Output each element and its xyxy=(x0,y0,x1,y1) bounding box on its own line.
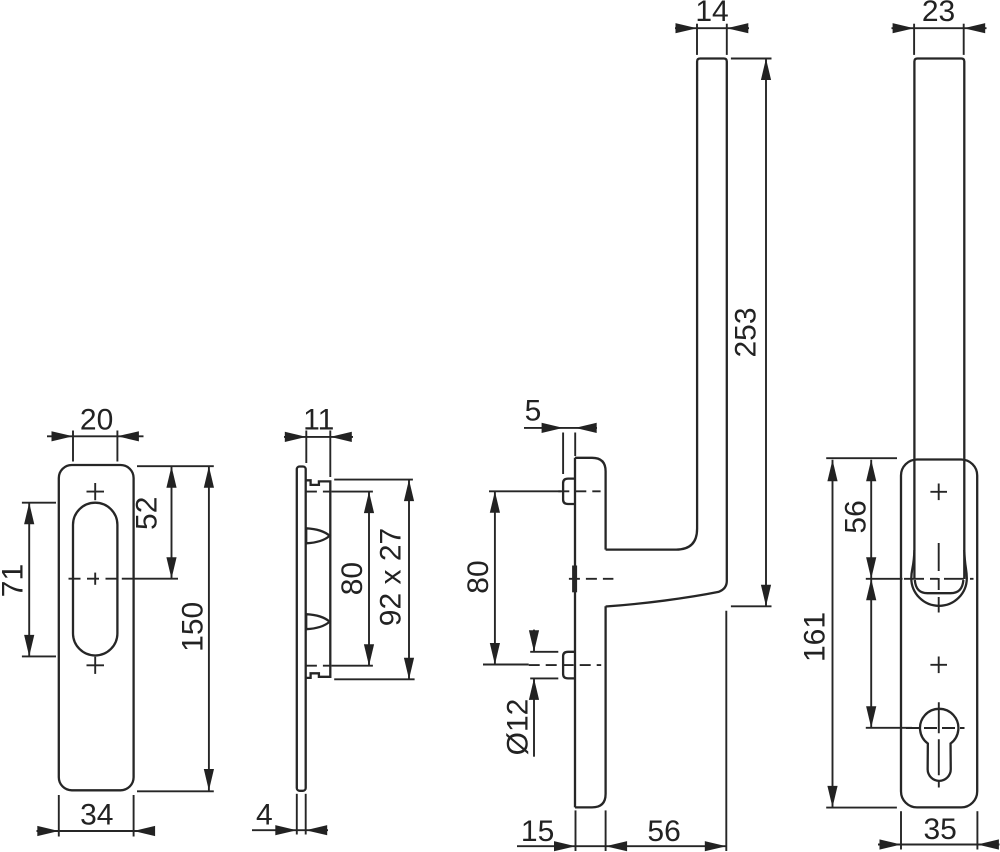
dimension 20 (view 1 slot width) xyxy=(47,431,144,462)
extension line plate bottom (view 4) xyxy=(826,807,897,809)
dimension 4 (view 2 plate thickness) xyxy=(252,794,328,836)
svg-text:15: 15 xyxy=(521,815,554,848)
extension line cylinder centre (view 4) xyxy=(866,727,912,729)
svg-text:4: 4 xyxy=(256,799,273,832)
top screw cross (view 4) xyxy=(930,484,947,501)
dimension 23 (view 4 grip width) xyxy=(892,23,987,55)
backplate outline (view 1) xyxy=(59,465,134,790)
svg-text:56: 56 xyxy=(840,500,873,533)
svg-text:35: 35 xyxy=(924,813,957,846)
svg-text:80: 80 xyxy=(336,562,369,595)
dimension O12 (view 3 lug diameter) xyxy=(529,630,558,757)
bottom screw cross (view 4) xyxy=(930,657,947,674)
cylinder horizontal centre line (view 4) xyxy=(906,727,965,729)
svg-text:161: 161 xyxy=(799,612,832,662)
handle grip outline (view 3) xyxy=(606,59,727,607)
dimension 71 (view 1 slot length) xyxy=(22,503,56,657)
dimension 14 (view 3 grip width) xyxy=(675,23,749,55)
dimension 35 (view 4 plate width) xyxy=(878,811,1000,849)
bottom clip lug (view 2) xyxy=(306,614,329,629)
grip bend outer outline (view 4) xyxy=(911,550,967,606)
spindle vertical centre line dashed (view 4) xyxy=(938,543,940,613)
top clip lug (view 2) xyxy=(306,528,329,543)
grip bend inner edge (view 4) xyxy=(915,580,964,593)
oval slot (view 1) xyxy=(73,503,117,656)
cylinder vertical centre line (view 4) xyxy=(938,702,940,787)
svg-text:52: 52 xyxy=(131,497,164,530)
svg-text:80: 80 xyxy=(462,560,495,593)
dimension 56 (view 4 plate top to spindle) xyxy=(866,460,876,579)
svg-text:5: 5 xyxy=(525,395,542,428)
upper centre line dashed (view 2) xyxy=(306,491,332,493)
svg-text:71: 71 xyxy=(0,564,30,597)
dimension 80 (view 2 hole distance) xyxy=(332,492,375,666)
dimension 15 and 56 (view 3 bottom) xyxy=(517,611,726,852)
svg-text:Ø12: Ø12 xyxy=(502,699,535,756)
svg-text:20: 20 xyxy=(80,404,113,437)
spindle centre line dashed (view 3) xyxy=(569,578,614,580)
lower centre line dashed (view 2) xyxy=(306,665,332,667)
dimension 92 x 27 (view 2 profile length) xyxy=(334,480,414,680)
svg-text:34: 34 xyxy=(80,799,113,832)
plate front outline (view 4) xyxy=(901,460,977,808)
grip bar front outline (view 4) xyxy=(914,59,964,580)
thin plate side outline (view 2) xyxy=(297,467,306,791)
spindle centre line dashed (view 1) xyxy=(69,573,122,585)
svg-text:253: 253 xyxy=(730,307,763,357)
spindle hole edge mark (view 3) xyxy=(572,566,577,593)
dimension spindle to cylinder (view 4, unlabelled) xyxy=(866,579,876,728)
svg-text:11: 11 xyxy=(303,404,334,437)
fixing profile outline (view 2) xyxy=(306,480,331,678)
svg-text:23: 23 xyxy=(922,0,955,28)
top lug centre line dashed (view 3) xyxy=(558,490,600,492)
svg-text:150: 150 xyxy=(177,602,210,652)
plate side outline lower part (view 3) xyxy=(575,606,606,807)
dimension 52 (view 1 plate top to spindle) xyxy=(122,466,214,579)
bottom screw centre cross (view 1) xyxy=(87,657,105,674)
euro cylinder hole (view 4) xyxy=(920,709,958,781)
top fixing lug (view 3) xyxy=(563,479,575,504)
dimension 5 (view 3 lug protrusion) xyxy=(524,423,597,474)
top screw centre cross (view 1) xyxy=(87,483,105,500)
extension line plate top (view 4) xyxy=(826,457,897,459)
spindle horizontal centre line dashed (view 4) xyxy=(904,578,974,580)
dimension 11 (view 2 profile depth) xyxy=(284,431,353,478)
svg-text:14: 14 xyxy=(695,0,728,28)
svg-text:92 x 27: 92 x 27 xyxy=(375,528,408,626)
dimension 80 (view 3 lug to spindle) xyxy=(483,491,561,664)
dimension 150 (view 1 plate height) xyxy=(137,466,214,791)
bottom fixing lug (view 3) xyxy=(563,652,575,679)
dimension 253 (view 3 grip length) xyxy=(731,59,772,607)
plate side left edge (view 3) xyxy=(574,458,576,808)
bottom lug centre line dashed (view 3) xyxy=(529,664,602,666)
plate side outline upper part (view 3) xyxy=(575,458,606,550)
svg-text:56: 56 xyxy=(647,815,680,848)
dimension 161 (view 4 plate height) xyxy=(827,460,837,808)
extension line spindle centre (view 4) xyxy=(866,578,903,580)
dimension 34 (view 1 plate width) xyxy=(37,795,156,837)
